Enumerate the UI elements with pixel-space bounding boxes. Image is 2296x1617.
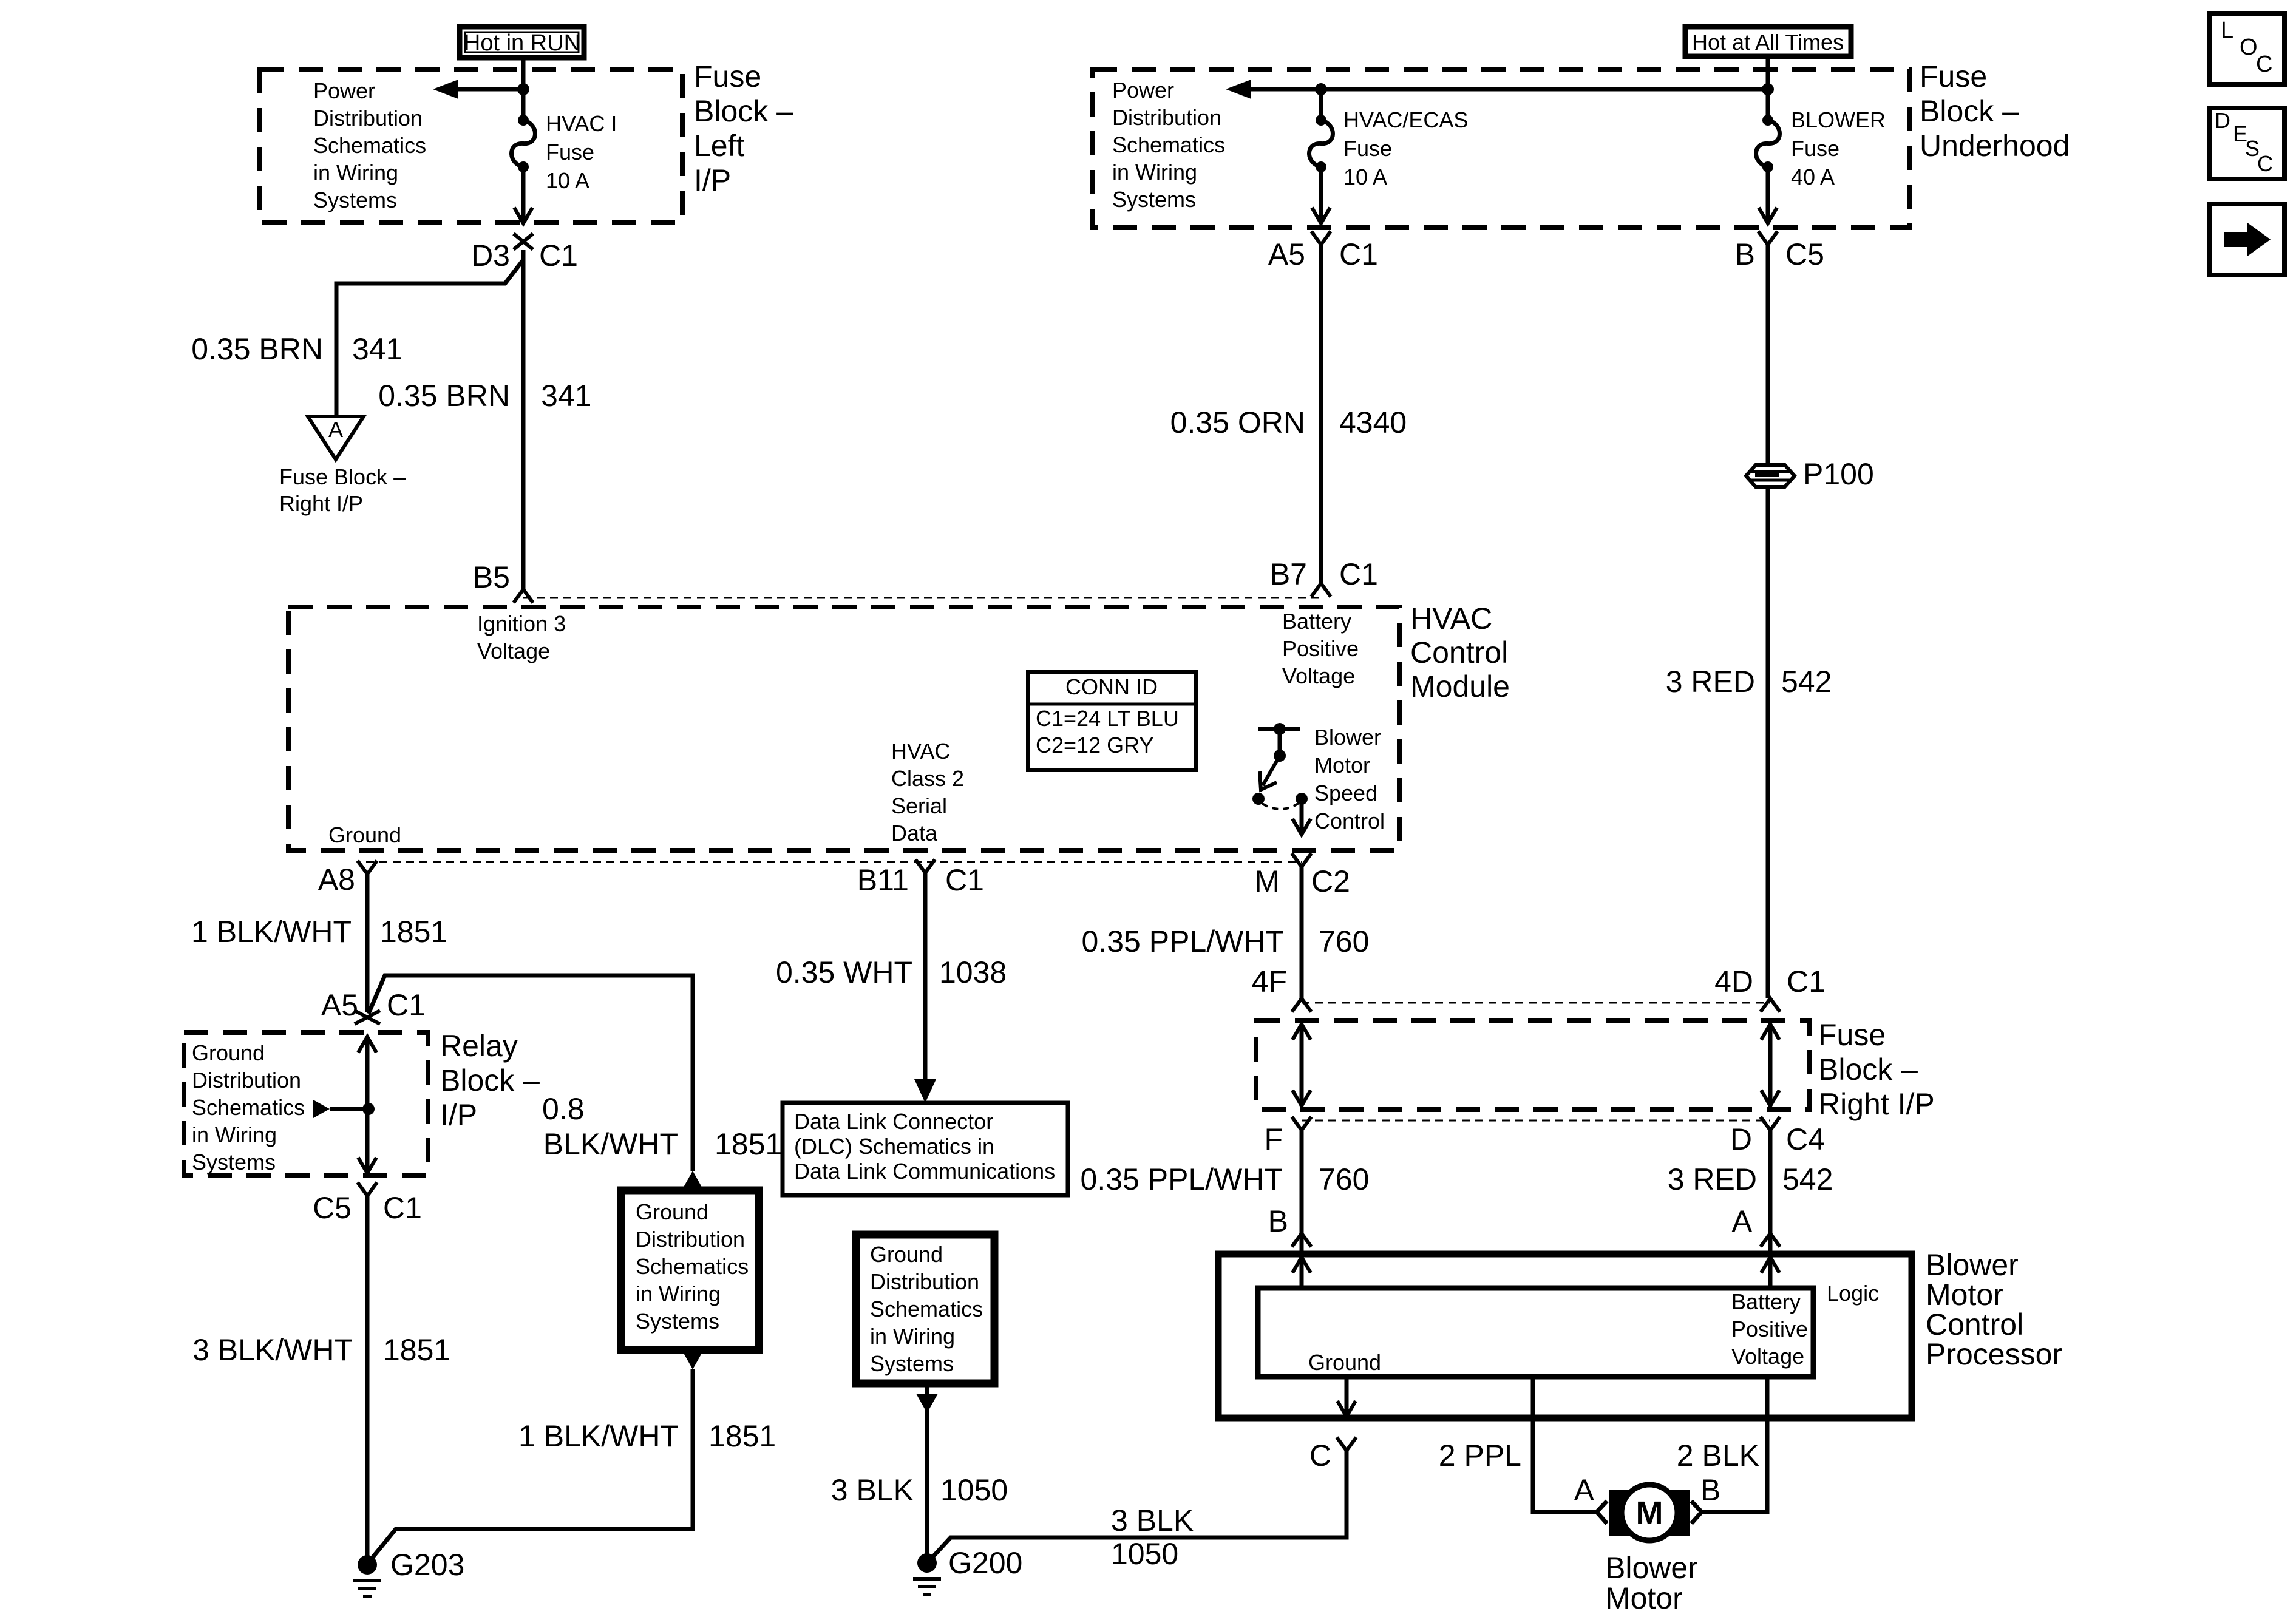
svg-text:1851: 1851 (715, 1127, 782, 1161)
svg-text:1851: 1851 (708, 1419, 776, 1453)
svg-text:Fuse: Fuse (1343, 136, 1392, 161)
svg-text:Distribution: Distribution (192, 1068, 301, 1093)
svg-text:1 BLK/WHT: 1 BLK/WHT (518, 1419, 679, 1453)
connector thin dashed line 4F-4D (1302, 1002, 1770, 1004)
open arrow up inside right I/P box (left) (1292, 1024, 1311, 1040)
svg-text:C1: C1 (1339, 237, 1378, 271)
svg-text:Motor: Motor (1314, 753, 1370, 778)
wire below BLOWER fuse (1766, 167, 1770, 222)
svg-text:Ground: Ground (192, 1040, 265, 1065)
svg-text:4D: 4D (1714, 964, 1753, 998)
svg-text:C5: C5 (313, 1191, 352, 1225)
open arrow down at underhood edge (B) (1759, 208, 1777, 223)
off-page triangle up (ground dist box) (682, 1171, 704, 1190)
svg-text:D: D (2215, 108, 2230, 133)
svg-text:in Wiring: in Wiring (636, 1281, 721, 1306)
svg-text:C2=12 GRY: C2=12 GRY (1036, 733, 1153, 758)
wire A8 down to relay block (365, 874, 370, 1012)
svg-text:G200: G200 (948, 1546, 1022, 1580)
svg-text:10 A: 10 A (546, 168, 589, 193)
bus wire to power distribution arrow (right) (1245, 87, 1768, 92)
svg-text:760: 760 (1319, 924, 1369, 958)
svg-text:Fuse Block –: Fuse Block – (279, 464, 406, 489)
wire A pin into logic box (1768, 1233, 1773, 1288)
wire P100 down to 4D (1766, 488, 1770, 998)
off-page triangle connector A (308, 416, 364, 459)
2 BLK wire to motor B (1702, 1377, 1767, 1512)
ground distribution solid box (G200) (856, 1235, 994, 1383)
svg-text:Serial: Serial (891, 793, 947, 818)
svg-text:Distribution: Distribution (1112, 105, 1221, 130)
svg-text:0.35 BRN: 0.35 BRN (191, 332, 323, 366)
svg-text:Hot at All Times: Hot at All Times (1692, 30, 1844, 55)
svg-text:Distribution: Distribution (870, 1269, 979, 1294)
fuse block right I/P dashed box (1256, 1020, 1809, 1110)
svg-text:40 A: 40 A (1791, 164, 1835, 189)
branch wire to ground distribution box (369, 975, 693, 1171)
open arrow down at underhood edge (A5) (1312, 208, 1330, 223)
wire below HVAC/ECAS fuse (1319, 167, 1323, 222)
fuse block left I/P dashed box (260, 69, 682, 222)
svg-text:3 RED: 3 RED (1666, 665, 1755, 699)
svg-text:Motor: Motor (1926, 1278, 2003, 1312)
open arrow down inside right I/P box (right) (1761, 1090, 1779, 1106)
inline connector C1 at A5 (relay) (355, 1011, 380, 1024)
svg-text:Class 2: Class 2 (891, 766, 964, 791)
svg-text:P100: P100 (1803, 457, 1874, 491)
svg-text:in Wiring: in Wiring (870, 1324, 955, 1349)
svg-text:Ignition 3: Ignition 3 (477, 611, 566, 636)
wire D3 down to HVAC module B5 (521, 250, 526, 589)
blower speed switch bar (1258, 727, 1300, 731)
svg-text:B5: B5 (473, 560, 510, 594)
wire through relay block (365, 1037, 370, 1173)
svg-text:C1=24 LT BLU: C1=24 LT BLU (1036, 706, 1179, 731)
wire C5 down to G203 (365, 1196, 370, 1565)
svg-text:Blower: Blower (1605, 1551, 1698, 1585)
svg-text:Voltage: Voltage (477, 639, 550, 663)
svg-text:Schematics: Schematics (313, 133, 426, 158)
pin 4D entry symbol (1761, 998, 1780, 1012)
svg-text:HVAC/ECAS: HVAC/ECAS (1343, 107, 1468, 132)
svg-text:BLK/WHT: BLK/WHT (543, 1127, 678, 1161)
svg-text:O: O (2240, 35, 2258, 60)
svg-text:0.35 WHT: 0.35 WHT (776, 955, 912, 989)
svg-text:Control: Control (1926, 1307, 2023, 1341)
svg-text:Voltage: Voltage (1731, 1344, 1804, 1369)
DLC reference box (783, 1103, 1068, 1195)
ground wire out of logic box (1345, 1377, 1349, 1417)
svg-text:2 BLK: 2 BLK (1677, 1439, 1759, 1473)
blower motor symbol (1609, 1490, 1633, 1536)
wire to power distribution arrow (left) (452, 87, 523, 92)
svg-text:HVAC I: HVAC I (546, 111, 617, 136)
open arrow up inside right I/P box (right) (1761, 1024, 1779, 1040)
blower motor control processor box (1218, 1254, 1912, 1418)
svg-text:Underhood: Underhood (1920, 129, 2070, 163)
svg-text:Power: Power (313, 78, 375, 103)
svg-text:L: L (2221, 18, 2233, 43)
wire A5 to B7 (1319, 245, 1323, 583)
pin 4F entry symbol (1292, 998, 1311, 1012)
open arrow down inside relay block (358, 1158, 376, 1173)
svg-text:Processor: Processor (1926, 1337, 2062, 1371)
svg-text:Battery: Battery (1282, 609, 1351, 634)
pin D exit symbol (1761, 1117, 1780, 1130)
power feed label box: Hot at All Times (1685, 27, 1851, 56)
svg-text:Hot in RUN: Hot in RUN (464, 30, 580, 56)
fuse block underhood dashed box (1093, 69, 1910, 228)
svg-text:3 BLK/WHT: 3 BLK/WHT (192, 1333, 353, 1367)
svg-text:in Wiring: in Wiring (313, 160, 398, 185)
svg-text:Relay: Relay (440, 1029, 518, 1063)
svg-text:Fuse: Fuse (694, 59, 761, 93)
svg-text:Block –: Block – (694, 94, 793, 128)
svg-text:C1: C1 (1339, 557, 1378, 591)
svg-text:C: C (2257, 151, 2273, 176)
svg-text:BLOWER: BLOWER (1791, 107, 1886, 132)
solid arrowhead pointing left at Power Distribution (right) (1226, 80, 1251, 99)
svg-text:A5: A5 (321, 988, 358, 1022)
svg-text:G203: G203 (390, 1548, 464, 1582)
switch node top (1274, 723, 1286, 735)
svg-text:Blower: Blower (1314, 725, 1381, 750)
svg-text:Block –: Block – (1920, 94, 2019, 128)
pin M exit symbol (1292, 853, 1311, 867)
svg-text:Speed: Speed (1314, 781, 1377, 805)
off-page triangle down (ground dist box) (682, 1350, 704, 1369)
pin B entry symbol (processor) (1292, 1233, 1311, 1247)
svg-text:Data: Data (891, 821, 938, 846)
svg-text:Fuse: Fuse (1818, 1018, 1886, 1052)
solid arrowhead pointing left at Power Distribution (433, 80, 458, 99)
wire G200 box down to ground (925, 1383, 929, 1555)
svg-text:M: M (1254, 864, 1280, 898)
svg-text:1851: 1851 (380, 915, 447, 949)
svg-text:Blower: Blower (1926, 1248, 2019, 1282)
svg-text:A5: A5 (1268, 237, 1305, 271)
svg-text:4340: 4340 (1339, 405, 1407, 439)
open arrow down inside right I/P box (left) (1292, 1090, 1311, 1106)
svg-text:C: C (2256, 52, 2272, 77)
svg-text:Motor: Motor (1605, 1581, 1683, 1615)
svg-text:Schematics: Schematics (870, 1297, 983, 1321)
pin C5 exit symbol (358, 1182, 377, 1196)
open arrow up inside processor (A) (1761, 1257, 1779, 1273)
svg-text:0.8: 0.8 (542, 1092, 585, 1126)
wire B pin into logic box (1300, 1233, 1304, 1288)
svg-text:Fuse: Fuse (1791, 136, 1839, 161)
pin B connector symbol (1758, 231, 1778, 245)
connector C1 inline symbol at D3 (514, 234, 533, 249)
pin B5 entry symbol (514, 589, 533, 603)
svg-text:Ground: Ground (1308, 1350, 1381, 1375)
svg-text:1050: 1050 (940, 1473, 1008, 1507)
open arrow down at processor edge (C) (1337, 1401, 1356, 1417)
2 PPL wire to motor A (1533, 1377, 1596, 1512)
wire stub to HVAC/ECAS fuse (1319, 89, 1323, 120)
fuse BLOWER 40 A symbol (1762, 115, 1773, 126)
wire M down to 4F (1300, 867, 1304, 1000)
icon box DESC (2209, 108, 2284, 179)
ground symbol G203 (358, 1555, 377, 1575)
motor terminal chevron A (1597, 1501, 1607, 1524)
wire F down to processor B (1300, 1130, 1304, 1233)
svg-text:I/P: I/P (694, 163, 731, 197)
svg-text:D: D (1730, 1122, 1752, 1156)
svg-text:0.35 PPL/WHT: 0.35 PPL/WHT (1081, 1162, 1283, 1196)
pin F exit symbol (1292, 1117, 1311, 1130)
svg-text:in Wiring: in Wiring (1112, 160, 1197, 185)
svg-text:C1: C1 (945, 863, 984, 897)
open arrow up inside processor (B) (1292, 1257, 1311, 1273)
svg-text:Logic: Logic (1827, 1281, 1879, 1306)
junction node on HVAC I feed (517, 83, 529, 95)
svg-text:Distribution: Distribution (313, 106, 423, 131)
svg-text:Systems: Systems (192, 1150, 276, 1175)
wire pin C down (1345, 1451, 1349, 1537)
svg-text:Schematics: Schematics (192, 1095, 305, 1120)
switch travel dashed arc (1262, 804, 1298, 809)
wire below fuse HVAC I (521, 167, 526, 222)
svg-text:F: F (1264, 1122, 1283, 1156)
svg-text:B: B (1700, 1473, 1720, 1507)
connector thin dashed line F-D (1302, 1120, 1770, 1122)
svg-text:1851: 1851 (383, 1333, 450, 1367)
svg-text:A: A (1732, 1204, 1753, 1238)
wire from Hot in RUN to fuse HVAC I (521, 60, 526, 120)
svg-text:Data Link Connector: Data Link Connector (794, 1109, 993, 1134)
svg-text:Block –: Block – (1818, 1053, 1918, 1086)
switch pivot node (1274, 750, 1286, 762)
junction node in relay block (362, 1103, 375, 1115)
connector thin dashed line (bottom) (366, 861, 1302, 863)
svg-text:Systems: Systems (313, 188, 397, 212)
svg-text:A8: A8 (318, 863, 355, 897)
junction node at HVAC/ECAS fuse (1315, 83, 1327, 95)
solid arrowhead into DLC box (914, 1079, 936, 1103)
ground distribution solid box (mid) (621, 1190, 759, 1350)
wire through right I/P box (left) (1300, 1024, 1304, 1106)
svg-text:1038: 1038 (939, 955, 1007, 989)
pin B11 exit symbol (915, 859, 935, 873)
svg-text:Systems: Systems (870, 1351, 954, 1376)
svg-text:B11: B11 (857, 863, 909, 897)
svg-text:Positive: Positive (1282, 636, 1359, 661)
svg-text:Voltage: Voltage (1282, 663, 1355, 688)
svg-text:C4: C4 (1786, 1122, 1825, 1156)
svg-text:Ground: Ground (870, 1242, 943, 1267)
wire through right I/P box (right) (1768, 1024, 1773, 1106)
open arrow up inside relay block (358, 1037, 376, 1053)
svg-text:0.35 ORN: 0.35 ORN (1170, 405, 1305, 439)
svg-text:Systems: Systems (1112, 187, 1196, 212)
svg-text:1 BLK/WHT: 1 BLK/WHT (191, 915, 352, 949)
svg-text:542: 542 (1782, 1162, 1833, 1196)
svg-text:4F: 4F (1252, 964, 1287, 998)
svg-text:I/P: I/P (440, 1098, 477, 1132)
open arrow down at module edge (M) (1292, 819, 1311, 835)
svg-text:Right I/P: Right I/P (1818, 1087, 1935, 1121)
stub to ground distribution pointer (330, 1107, 369, 1111)
svg-text:760: 760 (1319, 1162, 1369, 1196)
pin A8 exit symbol (358, 861, 377, 874)
svg-text:3 RED: 3 RED (1668, 1162, 1757, 1196)
switch stub (1278, 729, 1282, 756)
svg-text:CONN ID: CONN ID (1065, 674, 1158, 699)
solid pointer triangle (relay block) (313, 1100, 330, 1118)
splice pass-through P100 symbol (1746, 465, 1795, 487)
svg-text:A: A (328, 417, 343, 442)
wire B/C5 down to P100 (1766, 245, 1770, 464)
svg-text:Positive: Positive (1731, 1317, 1808, 1341)
svg-text:Control: Control (1410, 636, 1508, 670)
HVAC control module dashed box (288, 607, 1399, 850)
wire from Hot at All Times down (1766, 59, 1770, 120)
icon box LOC (2209, 13, 2284, 84)
ground symbol G200 (917, 1553, 937, 1573)
power feed label box: Hot in RUN (460, 27, 584, 58)
svg-text:Power: Power (1112, 78, 1174, 103)
icon box arrow right (2209, 204, 2284, 275)
svg-text:HVAC: HVAC (891, 739, 950, 764)
wire B11 down to DLC (923, 873, 928, 1080)
svg-text:3 BLK: 3 BLK (831, 1473, 914, 1507)
pin C exit symbol (1337, 1437, 1356, 1451)
open arrow down at fuse block edge (514, 208, 532, 223)
CONN ID table (1028, 672, 1196, 770)
svg-text:Schematics: Schematics (636, 1254, 749, 1279)
svg-text:Ground: Ground (328, 822, 401, 847)
svg-text:C1: C1 (1787, 964, 1826, 998)
connector C1 thin dashed line (top) (523, 597, 1321, 599)
svg-text:Distribution: Distribution (636, 1227, 745, 1252)
wire from switch to M pin (1300, 799, 1304, 833)
svg-text:Data Link Communications: Data Link Communications (794, 1159, 1055, 1184)
svg-text:542: 542 (1781, 665, 1832, 699)
relay block I/P dashed box (184, 1032, 428, 1175)
svg-text:Block –: Block – (440, 1063, 540, 1097)
svg-text:2 PPL: 2 PPL (1439, 1439, 1521, 1473)
wire D down to processor A (1768, 1130, 1773, 1233)
off-page triangle down (G200 box) (916, 1394, 938, 1413)
svg-text:Fuse: Fuse (1920, 59, 1987, 93)
svg-text:0.35 PPL/WHT: 0.35 PPL/WHT (1082, 924, 1284, 958)
svg-text:Module: Module (1410, 670, 1510, 703)
svg-text:C2: C2 (1311, 864, 1350, 898)
svg-text:Control: Control (1314, 808, 1385, 833)
svg-text:10 A: 10 A (1343, 164, 1387, 189)
svg-text:341: 341 (352, 332, 402, 366)
wire G200 to pin C of processor (929, 1452, 1347, 1561)
svg-text:D3: D3 (471, 239, 510, 273)
svg-text:C1: C1 (387, 988, 426, 1022)
svg-text:Right I/P: Right I/P (279, 491, 363, 516)
switch contact left node (1252, 793, 1265, 805)
svg-text:C: C (1309, 1439, 1331, 1473)
svg-text:C1: C1 (539, 239, 578, 273)
branch wire to fuse block right I/P (336, 260, 523, 416)
svg-text:A: A (1574, 1473, 1595, 1507)
svg-text:C1: C1 (383, 1191, 422, 1225)
switch blade with arrow (1263, 756, 1280, 785)
motor terminal chevron B (1691, 1501, 1702, 1524)
logic inner box (1258, 1288, 1813, 1377)
svg-text:in Wiring: in Wiring (192, 1122, 277, 1147)
svg-text:M: M (1636, 1495, 1663, 1531)
svg-text:Systems: Systems (636, 1309, 719, 1334)
fuse HVAC I 10 A symbol (518, 115, 529, 126)
svg-text:3 BLK: 3 BLK (1111, 1503, 1194, 1537)
wire from ground dist box to G203 junction (369, 1369, 693, 1562)
svg-text:HVAC: HVAC (1410, 602, 1492, 636)
svg-text:Battery: Battery (1731, 1289, 1801, 1314)
svg-text:341: 341 (541, 379, 591, 413)
svg-text:B7: B7 (1270, 557, 1307, 591)
svg-text:B: B (1268, 1204, 1288, 1238)
svg-text:C5: C5 (1785, 237, 1824, 271)
svg-text:1050: 1050 (1111, 1537, 1178, 1571)
svg-text:Ground: Ground (636, 1199, 708, 1224)
pin A5 connector symbol (1311, 231, 1331, 245)
junction node at BLOWER fuse (1762, 83, 1774, 95)
svg-text:Left: Left (694, 129, 745, 163)
svg-text:Fuse: Fuse (546, 140, 594, 164)
svg-text:B: B (1735, 237, 1755, 271)
pin A entry symbol (processor) (1761, 1233, 1780, 1247)
svg-text:Schematics: Schematics (1112, 132, 1225, 157)
pin B7 entry symbol (1311, 583, 1331, 597)
switch contact right node (1296, 793, 1308, 805)
fuse HVAC/ECAS 10 A symbol (1316, 115, 1326, 126)
svg-text:0.35 BRN: 0.35 BRN (378, 379, 510, 413)
svg-text:(DLC) Schematics in: (DLC) Schematics in (794, 1134, 994, 1159)
